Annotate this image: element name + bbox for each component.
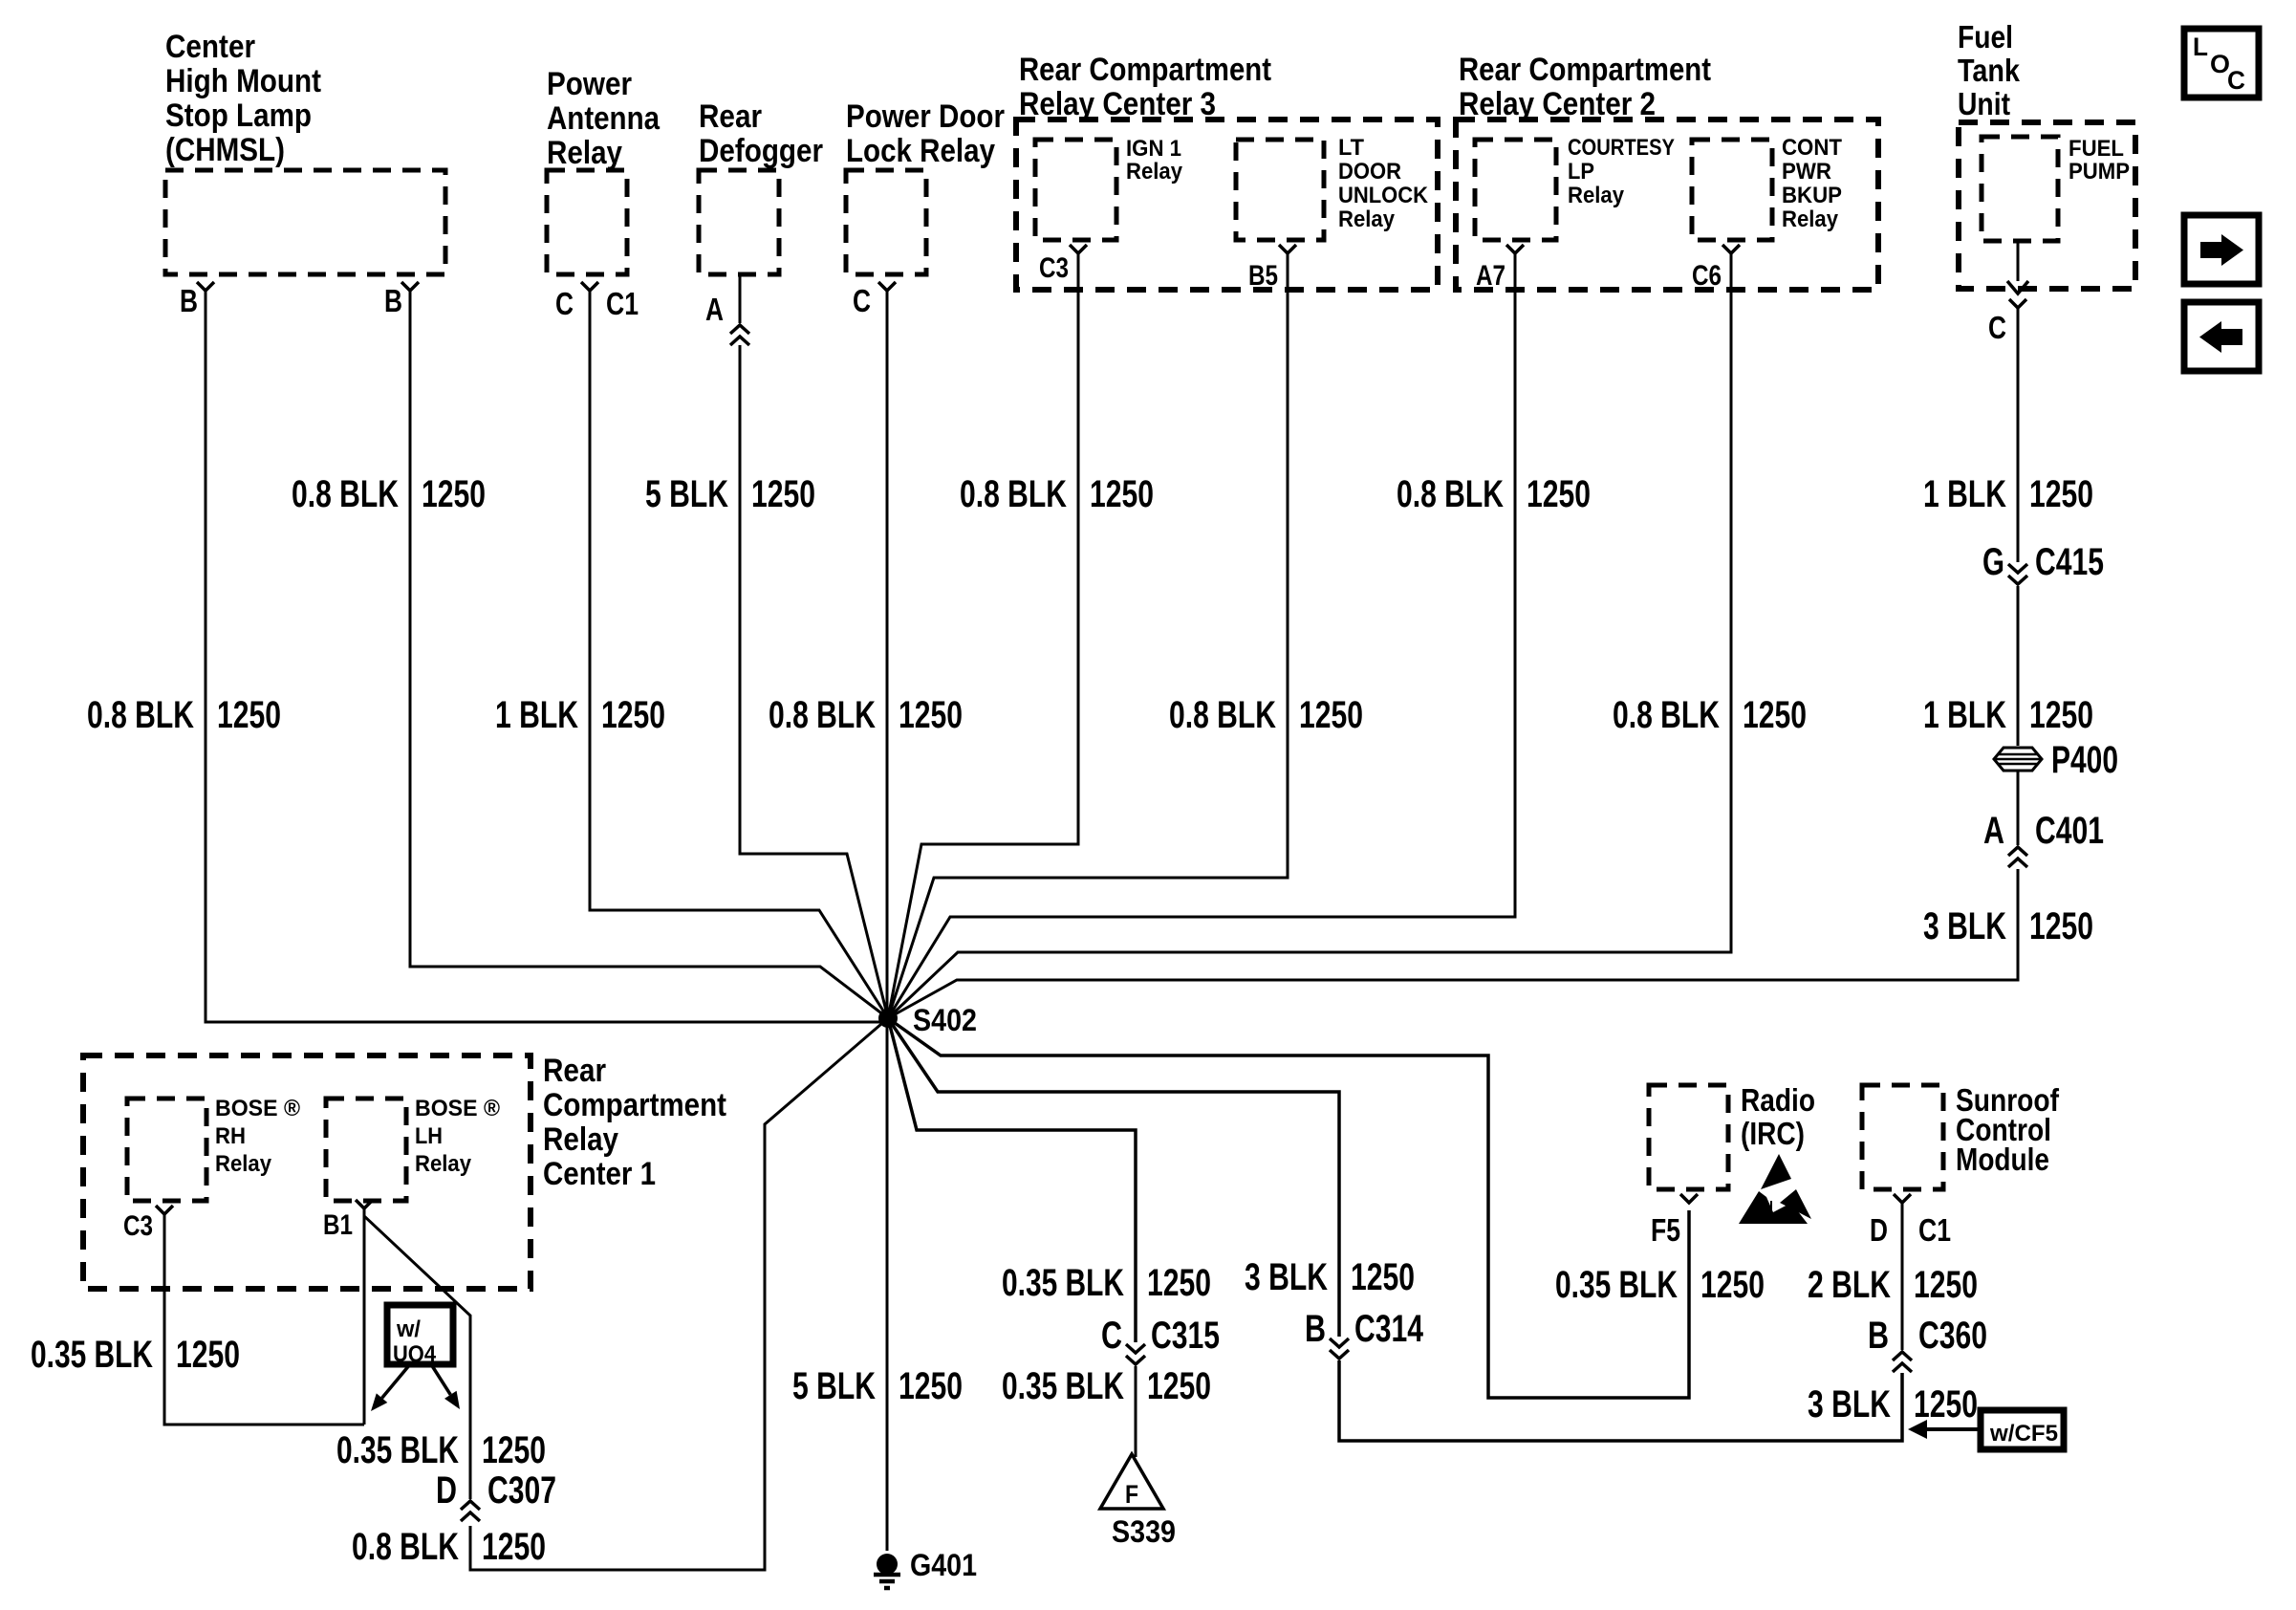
- svg-text:Compartment: Compartment: [543, 1087, 726, 1123]
- label 5 BLK 1250 (splice to ground wire): [792, 1365, 963, 1407]
- label 2 BLK 1250 (sunroof upper wire): [1808, 1264, 1978, 1306]
- connector C360 pin B: [1868, 1315, 1987, 1372]
- wire splice S402 to connector C314: [888, 1018, 1339, 1337]
- relay COURTESY LP Relay (in RC2): [1475, 135, 1675, 240]
- wire Fuel Tank Unit pin C to connector C415: [2017, 306, 2020, 562]
- label 5 BLK 1250 (rear defogger wire): [645, 473, 815, 515]
- relay CONT PWR BKUP Relay (in RC2): [1692, 135, 1842, 240]
- svg-text:C315: C315: [1151, 1315, 1220, 1357]
- svg-text:F5: F5: [1651, 1212, 1680, 1248]
- svg-text:0.8 BLK: 0.8 BLK: [352, 1526, 459, 1568]
- svg-text:Rear: Rear: [699, 98, 762, 135]
- legend arrow left box: [2184, 302, 2259, 371]
- svg-text:Radio: Radio: [1741, 1082, 1815, 1118]
- svg-text:0.35 BLK: 0.35 BLK: [1002, 1365, 1124, 1407]
- svg-text:Tank: Tank: [1958, 53, 2021, 88]
- svg-text:PWR: PWR: [1782, 159, 1831, 185]
- svg-text:1250: 1250: [482, 1526, 546, 1568]
- pin F5 (Radio): [1651, 1194, 1698, 1248]
- svg-text:1250: 1250: [2029, 473, 2093, 515]
- component Rear Compartment Relay Center 3: [1016, 52, 1438, 290]
- svg-text:Relay: Relay: [1782, 207, 1839, 232]
- wire splice S402 to connector C307 and relay center 1: [470, 1018, 888, 1570]
- pin D / connector C1 (Sunroof Control Module): [1870, 1194, 1951, 1248]
- svg-text:UQ4: UQ4: [393, 1341, 437, 1367]
- component Rear Compartment Relay Center 2: [1456, 52, 1878, 290]
- svg-text:COURTESY: COURTESY: [1568, 135, 1675, 161]
- svg-text:Relay: Relay: [415, 1151, 472, 1177]
- wire connector C307 to BOSE LH relay pin B1: [364, 1216, 470, 1499]
- wire COURTESY LP Relay pin A7 to splice S402: [888, 253, 1515, 1018]
- splice S339 (triangle F): [1100, 1454, 1176, 1549]
- legend box LOC: [2184, 29, 2259, 98]
- label 1 BLK 1250 (power antenna wire): [495, 694, 665, 736]
- pin C (Power Door Lock Relay): [853, 282, 896, 318]
- wire splice S402 to Radio pin F5: [888, 1018, 1689, 1398]
- svg-text:3 BLK: 3 BLK: [1245, 1256, 1328, 1298]
- connector C314 pin B: [1305, 1308, 1424, 1359]
- relay LT DOOR UNLOCK Relay (in RC3): [1236, 135, 1429, 240]
- svg-text:C360: C360: [1918, 1315, 1987, 1357]
- wire connector C314 to connector C360 (sunroof): [1339, 1360, 1902, 1441]
- label 3 BLK 1250 (splice to C314 wire): [1245, 1256, 1415, 1298]
- svg-text:(CHMSL): (CHMSL): [165, 132, 285, 168]
- label 1 BLK 1250 (fuel tank unit lower wire): [1923, 694, 2093, 736]
- svg-text:0.8 BLK: 0.8 BLK: [87, 694, 194, 736]
- svg-text:0.8 BLK: 0.8 BLK: [1613, 694, 1720, 736]
- svg-text:Rear Compartment: Rear Compartment: [1459, 52, 1711, 88]
- pin B1 (BOSE LH Relay): [323, 1200, 373, 1241]
- legend arrow right box: [2184, 215, 2259, 284]
- svg-text:B5: B5: [1248, 260, 1278, 292]
- svg-text:Lock Relay: Lock Relay: [846, 133, 995, 169]
- svg-text:1250: 1250: [1914, 1264, 1978, 1306]
- svg-text:Fuel: Fuel: [1958, 19, 2013, 54]
- svg-text:Rear Compartment: Rear Compartment: [1019, 52, 1271, 88]
- svg-text:1250: 1250: [2029, 694, 2093, 736]
- svg-text:B1: B1: [323, 1209, 353, 1241]
- svg-text:A: A: [705, 292, 724, 327]
- label 0.35 BLK 1250 (below C315): [1002, 1365, 1211, 1407]
- svg-text:0.8 BLK: 0.8 BLK: [1397, 473, 1504, 515]
- pin C (Fuel Tank Unit) with feed arrow: [1988, 241, 2028, 345]
- svg-text:C: C: [2227, 66, 2245, 95]
- svg-text:Center 1: Center 1: [543, 1156, 656, 1192]
- splice S402 junction dot: [878, 1003, 977, 1037]
- pin A7 (RC2): [1476, 245, 1524, 292]
- svg-text:Relay: Relay: [1338, 207, 1396, 232]
- svg-text:Stop Lamp: Stop Lamp: [165, 98, 312, 134]
- pin C3 (IGN 1 Relay): [1039, 245, 1087, 284]
- svg-text:LH: LH: [415, 1123, 443, 1149]
- svg-text:B: B: [384, 283, 402, 318]
- svg-text:3 BLK: 3 BLK: [1808, 1383, 1891, 1425]
- svg-text:1250: 1250: [751, 473, 815, 515]
- svg-text:5 BLK: 5 BLK: [645, 473, 728, 515]
- svg-text:1250: 1250: [1700, 1264, 1765, 1306]
- svg-text:P400: P400: [2051, 739, 2118, 781]
- svg-text:1250: 1250: [1527, 473, 1591, 515]
- svg-text:B: B: [1305, 1308, 1326, 1350]
- pin A (Rear Defogger): [705, 292, 724, 327]
- svg-text:Relay: Relay: [547, 135, 622, 171]
- svg-text:0.8 BLK: 0.8 BLK: [1169, 694, 1276, 736]
- wire connector C401 to splice S402: [888, 869, 2018, 1018]
- wire pass-through P400 to connector C401: [2017, 771, 2020, 845]
- svg-text:C415: C415: [2035, 541, 2104, 583]
- svg-text:2 BLK: 2 BLK: [1808, 1264, 1891, 1306]
- svg-text:B: B: [180, 283, 198, 318]
- svg-text:0.35 BLK: 0.35 BLK: [31, 1334, 153, 1376]
- connector C307 pin D: [436, 1469, 556, 1521]
- label 0.8 BLK 1250 (IGN 1 relay wire): [960, 473, 1154, 515]
- component Fuel Tank Unit: [1958, 19, 2135, 289]
- svg-text:1250: 1250: [1147, 1262, 1211, 1304]
- label 0.8 BLK 1250 (courtesy lamp wire): [1397, 473, 1591, 515]
- component Power Antenna Relay: [547, 66, 661, 274]
- svg-text:High Mount: High Mount: [165, 63, 321, 99]
- svg-text:BOSE ®: BOSE ®: [415, 1096, 500, 1121]
- label 0.35 BLK 1250 (radio wire): [1555, 1264, 1765, 1306]
- svg-text:C307: C307: [487, 1469, 556, 1512]
- pin B5 (RC3): [1248, 245, 1296, 292]
- label 3 BLK 1250 (sunroof lower wire): [1808, 1383, 1978, 1425]
- pass-through grommet P400: [1994, 739, 2118, 781]
- svg-text:0.35 BLK: 0.35 BLK: [1002, 1262, 1124, 1304]
- svg-text:L: L: [2193, 33, 2208, 61]
- svg-text:A: A: [1983, 810, 2004, 852]
- svg-text:w/CF5: w/CF5: [1989, 1421, 2058, 1447]
- wire Rear Defogger pin A upper segment: [739, 274, 742, 323]
- svg-text:C1: C1: [1918, 1212, 1951, 1248]
- wire CHMSL right pin B to splice S402: [410, 291, 888, 1018]
- pin B (CHMSL left): [180, 282, 214, 318]
- svg-text:C314: C314: [1354, 1308, 1424, 1350]
- svg-text:1250: 1250: [217, 694, 281, 736]
- pin C / connector C1 (Power Antenna Relay): [555, 282, 639, 321]
- svg-text:C: C: [555, 286, 574, 321]
- label 0.8 BLK 1250 (below C307): [352, 1526, 546, 1568]
- svg-text:Power Door: Power Door: [846, 98, 1005, 135]
- svg-text:C401: C401: [2035, 810, 2104, 852]
- svg-text:C6: C6: [1692, 260, 1722, 292]
- svg-text:3 BLK: 3 BLK: [1923, 905, 2006, 947]
- svg-text:FUEL: FUEL: [2069, 136, 2124, 162]
- svg-text:Relay: Relay: [215, 1151, 272, 1177]
- component Radio (IRC): [1649, 1082, 1815, 1189]
- svg-text:Defogger: Defogger: [699, 133, 823, 169]
- connector C315 pin C: [1101, 1315, 1220, 1364]
- svg-text:1250: 1250: [1299, 694, 1363, 736]
- wire Power Door Lock Relay pin C through splice S402 to ground G401: [886, 291, 889, 1551]
- inline connector (Rear Defogger pin A): [730, 325, 749, 345]
- svg-text:0.35 BLK: 0.35 BLK: [336, 1429, 459, 1471]
- label 0.8 BLK 1250 (LT door unlock wire): [1169, 694, 1363, 736]
- svg-text:S402: S402: [913, 1003, 977, 1037]
- wire IGN 1 Relay pin C3 to splice S402: [888, 253, 1078, 1018]
- svg-text:C3: C3: [123, 1210, 153, 1242]
- svg-text:C: C: [853, 283, 871, 318]
- ESD sensitive symbol (Radio): [1739, 1154, 1811, 1224]
- svg-text:0.35 BLK: 0.35 BLK: [1555, 1264, 1678, 1306]
- svg-text:1250: 1250: [176, 1334, 240, 1376]
- svg-text:Relay Center 3: Relay Center 3: [1019, 86, 1216, 122]
- svg-text:w/: w/: [396, 1316, 421, 1342]
- svg-text:Rear: Rear: [543, 1053, 606, 1089]
- svg-text:LP: LP: [1568, 159, 1594, 185]
- connector C401 pin A: [1983, 810, 2104, 867]
- svg-text:G: G: [1982, 541, 2004, 583]
- svg-text:IGN 1: IGN 1: [1126, 136, 1181, 162]
- wire Rear Defogger pin A to splice S402: [740, 345, 888, 1018]
- svg-text:1250: 1250: [1090, 473, 1154, 515]
- component Rear Defogger: [699, 98, 823, 274]
- svg-text:G401: G401: [910, 1548, 977, 1582]
- svg-text:Relay: Relay: [543, 1121, 618, 1158]
- svg-text:1250: 1250: [1914, 1383, 1978, 1425]
- svg-text:Relay: Relay: [1126, 159, 1183, 185]
- svg-text:Antenna: Antenna: [547, 100, 661, 137]
- relay BOSE LH Relay (in RC1): [326, 1096, 500, 1201]
- label 0.8 BLK 1250 (CHMSL left wire): [87, 694, 281, 736]
- svg-text:UNLOCK: UNLOCK: [1338, 183, 1429, 208]
- svg-text:Unit: Unit: [1958, 86, 2010, 121]
- wire sunroof pin D to connector C360: [1901, 1203, 1904, 1350]
- pin B (CHMSL right): [384, 282, 419, 318]
- wire connector C315 to splice S339: [1135, 1366, 1137, 1457]
- option box w/CF5 with arrow: [1908, 1410, 2064, 1449]
- option box w/UQ4 with arrows: [371, 1305, 460, 1411]
- label 0.35 BLK 1250 (above C307): [336, 1429, 546, 1471]
- label 0.8 BLK 1250 (CHMSL right wire): [292, 473, 486, 515]
- svg-text:1250: 1250: [899, 694, 963, 736]
- svg-text:1250: 1250: [482, 1429, 546, 1471]
- svg-text:0.8 BLK: 0.8 BLK: [292, 473, 399, 515]
- wire splice S402 to connector C315: [888, 1018, 1136, 1342]
- ground G401: [874, 1548, 977, 1588]
- component CHMSL (Center High Mount Stop Lamp): [165, 29, 445, 274]
- label 0.8 BLK 1250 (cont pwr bkup wire): [1613, 694, 1807, 736]
- svg-text:1250: 1250: [899, 1365, 963, 1407]
- svg-text:5 BLK: 5 BLK: [792, 1365, 876, 1407]
- svg-text:1 BLK: 1 BLK: [1923, 473, 2006, 515]
- relay BOSE RH Relay (in RC1): [127, 1096, 300, 1201]
- svg-text:RH: RH: [215, 1123, 246, 1149]
- svg-text:PUMP: PUMP: [2069, 159, 2130, 185]
- svg-text:0.8 BLK: 0.8 BLK: [960, 473, 1067, 515]
- svg-text:A7: A7: [1476, 260, 1505, 292]
- wire CHMSL left pin B to splice S402: [206, 291, 881, 1022]
- svg-text:D: D: [436, 1469, 457, 1512]
- component FUEL PUMP (in Fuel Tank Unit): [1982, 136, 2130, 241]
- svg-text:Power: Power: [547, 66, 632, 102]
- svg-text:DOOR: DOOR: [1338, 159, 1401, 185]
- svg-text:BOSE ®: BOSE ®: [215, 1096, 300, 1121]
- wire Power Antenna Relay pin C to splice S402: [590, 291, 888, 1018]
- svg-text:C1: C1: [606, 286, 639, 321]
- svg-text:LT: LT: [1338, 135, 1364, 161]
- svg-text:Module: Module: [1956, 1142, 2049, 1177]
- svg-text:C: C: [1988, 310, 2006, 345]
- svg-text:B: B: [1868, 1315, 1889, 1357]
- svg-text:1 BLK: 1 BLK: [495, 694, 578, 736]
- wire connector C415 to pass-through P400: [2017, 586, 2020, 746]
- svg-text:1250: 1250: [422, 473, 486, 515]
- svg-text:D: D: [1870, 1212, 1888, 1248]
- label 0.35 BLK 1250 (above C315): [1002, 1262, 1211, 1304]
- svg-text:(IRC): (IRC): [1741, 1116, 1805, 1151]
- svg-text:F: F: [1125, 1480, 1138, 1509]
- wire LT DOOR UNLOCK Relay pin B5 to splice S402: [888, 253, 1288, 1018]
- svg-text:1250: 1250: [1351, 1256, 1415, 1298]
- component Sunroof Control Module: [1862, 1082, 2060, 1189]
- svg-text:C: C: [1101, 1315, 1122, 1357]
- label 0.35 BLK 1250 (BOSE RH wire): [31, 1334, 240, 1376]
- label 3 BLK 1250 (fuel tank to splice wire): [1923, 905, 2093, 947]
- svg-text:1250: 1250: [601, 694, 665, 736]
- svg-text:Relay: Relay: [1568, 183, 1625, 208]
- svg-text:S339: S339: [1112, 1514, 1176, 1549]
- svg-text:C3: C3: [1039, 252, 1069, 284]
- svg-text:1250: 1250: [2029, 905, 2093, 947]
- svg-text:1 BLK: 1 BLK: [1923, 694, 2006, 736]
- svg-text:Center: Center: [165, 29, 255, 65]
- connector C415 pin G: [1982, 541, 2104, 584]
- relay IGN 1 Relay (in RC3): [1035, 136, 1183, 240]
- svg-text:CONT: CONT: [1782, 135, 1842, 161]
- component Power Door Lock Relay: [846, 98, 1005, 274]
- pin C3 (BOSE RH Relay): [123, 1206, 173, 1242]
- svg-text:1250: 1250: [1147, 1365, 1211, 1407]
- pin C6 (RC2): [1692, 245, 1740, 292]
- component Rear Compartment Relay Center 1: [83, 1053, 726, 1289]
- wire CONT PWR BKUP Relay pin C6 to splice S402: [888, 253, 1731, 1018]
- svg-text:Relay Center 2: Relay Center 2: [1459, 86, 1656, 122]
- svg-text:0.8 BLK: 0.8 BLK: [769, 694, 876, 736]
- label 0.8 BLK 1250 (power door lock wire): [769, 694, 963, 736]
- svg-text:BKUP: BKUP: [1782, 183, 1842, 208]
- wire BOSE RH relay pin C3 to BOSE LH relay pin B1: [164, 1208, 364, 1425]
- label 1 BLK 1250 (fuel tank unit upper wire): [1923, 473, 2093, 515]
- svg-text:1250: 1250: [1743, 694, 1807, 736]
